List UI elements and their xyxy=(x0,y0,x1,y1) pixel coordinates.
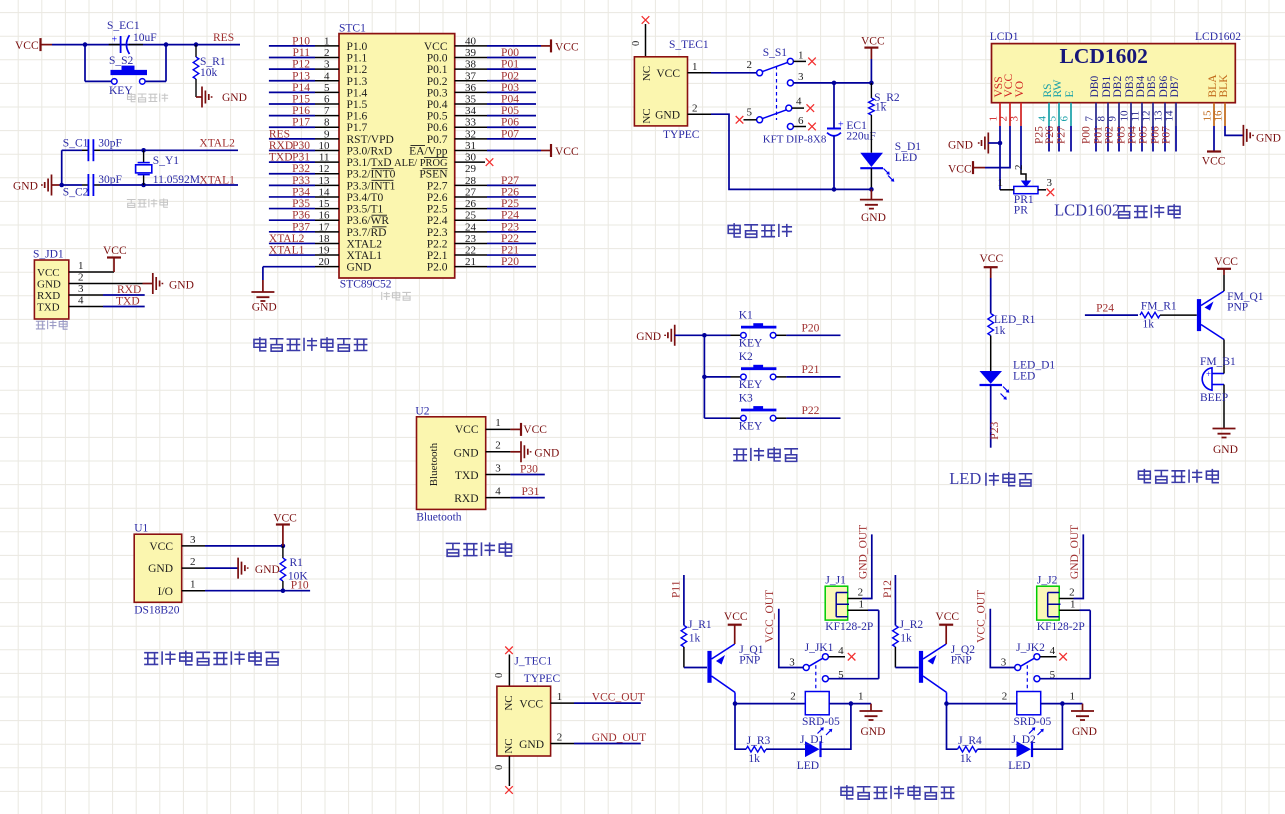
wire to LED branch xyxy=(947,704,958,750)
svg-text:KEY: KEY xyxy=(739,338,763,350)
svg-text:16: 16 xyxy=(319,210,331,222)
svg-text:2: 2 xyxy=(557,732,563,744)
title 单片机最小系统 xyxy=(254,337,367,351)
svg-text:1: 1 xyxy=(78,260,84,272)
connector S_JD1 xyxy=(33,249,69,320)
svg-text:LCD1: LCD1 xyxy=(990,31,1019,43)
svg-text:RST/VPD: RST/VPD xyxy=(347,134,394,146)
svg-text:LED: LED xyxy=(895,152,917,164)
svg-text:P0.3: P0.3 xyxy=(427,87,448,99)
pin 11 P3.1/TxD xyxy=(269,152,392,170)
svg-text:E: E xyxy=(1064,90,1076,97)
svg-text:VCC: VCC xyxy=(935,611,959,623)
svg-text:P25: P25 xyxy=(501,198,519,210)
svg-text:P3.7/RD: P3.7/RD xyxy=(347,227,387,239)
LED LED_D1 xyxy=(980,360,1056,400)
svg-text:1: 1 xyxy=(1070,690,1076,702)
LED S_D1 xyxy=(860,141,921,189)
svg-text:1: 1 xyxy=(998,177,1004,189)
relay SRD-05 xyxy=(1002,690,1075,735)
svg-text:VCC: VCC xyxy=(15,40,39,52)
svg-text:P02: P02 xyxy=(1104,126,1116,144)
svg-text:GND_OUT: GND_OUT xyxy=(592,732,646,744)
pin 2 VCC xyxy=(998,74,1016,122)
switch S_S2 KEY xyxy=(85,45,166,97)
svg-text:J_TEC1: J_TEC1 xyxy=(514,656,552,668)
svg-text:4: 4 xyxy=(796,96,802,108)
pin4 stub + X xyxy=(792,104,814,112)
svg-text:RXD: RXD xyxy=(117,284,141,296)
svg-text:P34: P34 xyxy=(292,186,310,198)
svg-text:10: 10 xyxy=(319,140,331,152)
svg-text:3: 3 xyxy=(1009,116,1021,122)
wire + net label P21 xyxy=(786,364,840,377)
svg-text:PNP: PNP xyxy=(739,655,760,667)
svg-text:VCC: VCC xyxy=(519,699,543,711)
pin 4 wire, net P31 xyxy=(486,485,545,498)
power port VCC (pin 31) xyxy=(541,144,579,158)
transistor J_Q1 PNP xyxy=(684,644,764,704)
annotation 按键复位 xyxy=(127,93,168,102)
resistor S_R1 10k xyxy=(193,45,226,97)
svg-text:K2: K2 xyxy=(739,351,753,363)
svg-text:GND: GND xyxy=(636,331,661,343)
svg-text:NC: NC xyxy=(503,738,515,753)
svg-text:P04: P04 xyxy=(501,94,519,106)
switch J_JK1 xyxy=(789,642,844,692)
svg-text:VCC_OUT: VCC_OUT xyxy=(592,692,645,704)
pin 3 wire xyxy=(182,534,286,548)
wire pin3 to VCC rail xyxy=(793,81,873,86)
power port VCC (power circuit) xyxy=(861,36,885,83)
title 防水温度采集模块 xyxy=(144,651,279,665)
svg-text:1: 1 xyxy=(495,417,501,429)
svg-text:DB7: DB7 xyxy=(1169,76,1181,98)
wire relay pin1 xyxy=(829,701,871,706)
pin 2 xyxy=(69,272,143,284)
pin 9 RST/VPD xyxy=(269,128,394,146)
pin 2 wire, net GND_OUT xyxy=(551,732,647,745)
svg-text:VCC: VCC xyxy=(455,424,479,436)
svg-text:P05: P05 xyxy=(501,105,519,117)
svg-text:1k: 1k xyxy=(748,753,760,765)
svg-text:P27: P27 xyxy=(501,175,519,187)
pin 1 xyxy=(486,417,511,429)
pin 40 VCC xyxy=(424,35,541,53)
pin3 VO wire to wiper xyxy=(1013,126,1031,187)
wire xyxy=(494,655,509,687)
svg-text:GND: GND xyxy=(148,563,173,575)
svg-text:2: 2 xyxy=(1013,165,1025,171)
svg-text:0: 0 xyxy=(494,673,505,678)
pin 17 P3.7/RD xyxy=(269,221,387,239)
svg-text:3: 3 xyxy=(495,462,501,474)
svg-text:TXD: TXD xyxy=(116,296,140,308)
pin 26 P2.5 xyxy=(427,198,536,216)
svg-text:P3.3/INT1: P3.3/INT1 xyxy=(347,180,396,192)
power port VCC (relay) xyxy=(935,611,959,644)
svg-text:P21: P21 xyxy=(802,364,820,376)
svg-text:P11: P11 xyxy=(293,47,311,59)
svg-text:15: 15 xyxy=(319,198,331,210)
svg-text:P2.6: P2.6 xyxy=(427,192,448,204)
net label P12 + wire xyxy=(882,575,895,625)
power port VCC (U1) xyxy=(273,513,297,546)
svg-text:1k: 1k xyxy=(875,102,887,114)
svg-text:FM_R1: FM_R1 xyxy=(1141,301,1177,313)
svg-text:STC89C52: STC89C52 xyxy=(340,279,392,291)
IC STC1 STC89C52 xyxy=(339,23,455,279)
svg-text:4: 4 xyxy=(495,485,501,497)
wire xyxy=(990,278,992,314)
svg-text:P2.4: P2.4 xyxy=(427,215,448,227)
pin 13 P3.3/INT1 xyxy=(269,175,396,193)
pin 11 DB4 xyxy=(1130,76,1148,122)
pin 3 wire, net RXD xyxy=(69,283,145,296)
resistor LED_R1 1k xyxy=(988,314,1036,372)
svg-text:J_R1: J_R1 xyxy=(688,619,712,631)
svg-text:GND: GND xyxy=(1256,133,1281,145)
svg-text:18: 18 xyxy=(319,233,331,245)
pin 2 wire xyxy=(688,103,872,190)
net label P11 + wire xyxy=(671,575,684,625)
pin 12 P3.2/INT0 xyxy=(269,163,396,181)
svg-text:+: + xyxy=(112,35,118,46)
svg-text:2: 2 xyxy=(1069,587,1075,599)
svg-text:PSEN: PSEN xyxy=(419,169,448,181)
svg-text:P13: P13 xyxy=(292,70,310,82)
pin 9 DB2 xyxy=(1107,76,1125,122)
svg-text:P14: P14 xyxy=(292,82,310,94)
svg-text:KF128-2P: KF128-2P xyxy=(825,621,873,633)
switch J_JK2 xyxy=(1001,642,1056,692)
svg-text:TYPEC: TYPEC xyxy=(663,129,700,141)
ground GND (reset) xyxy=(196,87,247,108)
ground GND (MCU) xyxy=(251,292,276,314)
no-ERC X (PR1 pin3) xyxy=(1047,189,1055,197)
pin 28 P2.7 xyxy=(427,175,536,193)
svg-text:VCC: VCC xyxy=(37,267,60,279)
KF pin1 wire xyxy=(1059,599,1090,611)
ground GND (buzzer) xyxy=(1213,429,1238,457)
svg-text:12: 12 xyxy=(319,163,330,175)
pin 37 P0.2 xyxy=(427,70,536,88)
svg-text:+: + xyxy=(838,120,844,131)
svg-text:+: + xyxy=(1206,369,1211,379)
wire + net label P23 xyxy=(989,385,1001,448)
svg-text:1: 1 xyxy=(692,61,698,73)
svg-text:S_TEC1: S_TEC1 xyxy=(669,39,709,51)
pin 4 wire, net TXD xyxy=(69,295,145,308)
svg-text:P23: P23 xyxy=(989,422,1001,440)
svg-text:14: 14 xyxy=(319,186,331,198)
wire bottom xyxy=(494,756,509,786)
svg-text:RES: RES xyxy=(269,128,290,140)
net label XTAL2 xyxy=(199,138,235,150)
svg-text:PNP: PNP xyxy=(1227,302,1248,314)
svg-text:P22: P22 xyxy=(501,233,519,245)
node junction + coil wire xyxy=(733,701,806,706)
svg-text:P24: P24 xyxy=(501,210,519,222)
svg-text:7: 7 xyxy=(1084,116,1096,122)
ground GND (LCD left) xyxy=(948,133,1000,154)
pin 31 EA/Vpp xyxy=(409,140,541,158)
pin 22 P2.1 xyxy=(427,245,536,263)
pin 21 P2.0 xyxy=(427,256,536,274)
pin name overlines xyxy=(372,145,448,226)
svg-text:LCD1602: LCD1602 xyxy=(1059,44,1147,68)
svg-text:GND: GND xyxy=(861,212,886,224)
svg-text:J_R3: J_R3 xyxy=(747,735,771,747)
designator STC89C52 xyxy=(340,279,392,291)
svg-text:P1.6: P1.6 xyxy=(347,111,368,123)
pin 4 P1.3 xyxy=(269,70,368,88)
svg-text:1: 1 xyxy=(557,691,563,703)
svg-text:P07: P07 xyxy=(1161,126,1173,144)
pin 24 P2.3 xyxy=(427,221,536,239)
LED J_D1 xyxy=(797,734,825,772)
svg-text:P20: P20 xyxy=(501,256,519,268)
ground GND (keys) xyxy=(636,325,730,346)
svg-text:BEEP: BEEP xyxy=(1200,392,1228,404)
svg-text:VCC: VCC xyxy=(273,513,297,525)
svg-text:7: 7 xyxy=(324,105,330,117)
KF pin2 wire, net GND_OUT xyxy=(1059,525,1083,599)
svg-text:P22: P22 xyxy=(802,405,820,417)
svg-text:4: 4 xyxy=(838,645,844,657)
wire to LED branch xyxy=(735,704,746,750)
IC LCD1 LCD1602 xyxy=(990,31,1242,103)
svg-text:3: 3 xyxy=(190,534,196,546)
svg-text:P00: P00 xyxy=(501,47,519,59)
svg-text:14: 14 xyxy=(1164,110,1176,122)
svg-text:SRD-05: SRD-05 xyxy=(1014,716,1052,728)
svg-text:KFT DIP-8X8: KFT DIP-8X8 xyxy=(763,133,827,145)
pin 6 E xyxy=(1059,90,1077,121)
svg-text:GND: GND xyxy=(1072,726,1097,738)
svg-text:GND: GND xyxy=(861,726,886,738)
svg-text:2: 2 xyxy=(858,587,864,599)
power port VCC (buzzer) xyxy=(1214,256,1238,275)
svg-text:4: 4 xyxy=(78,295,84,307)
svg-text:P07: P07 xyxy=(501,128,519,140)
power port VCC (LED) xyxy=(980,253,1004,278)
pin 1 wire xyxy=(688,61,757,73)
svg-text:P2.1: P2.1 xyxy=(427,250,448,262)
transistor FM_Q1 PNP xyxy=(1199,291,1264,340)
switch S_S1 KFT DIP-8X8 xyxy=(747,47,827,145)
ground GND (U2) xyxy=(510,441,559,462)
pin 1 xyxy=(69,260,114,272)
svg-text:VO: VO xyxy=(1014,81,1026,98)
pin 29 PSEN xyxy=(419,163,476,181)
pin 14 P3.4/T0 xyxy=(269,186,384,204)
svg-text:P1.7: P1.7 xyxy=(347,122,368,134)
svg-text:P0.7: P0.7 xyxy=(427,134,448,146)
svg-text:P0.0: P0.0 xyxy=(427,53,448,65)
pin 10 P3.0/RxD xyxy=(269,140,392,158)
LED J_D2 xyxy=(1008,734,1036,772)
svg-text:GND: GND xyxy=(13,181,38,193)
pin5 stub + X xyxy=(736,116,757,124)
title 电源电路 xyxy=(728,223,792,237)
svg-text:P35: P35 xyxy=(292,198,310,210)
pin 32 P0.7 xyxy=(427,128,536,146)
svg-text:P3.6/WR: P3.6/WR xyxy=(347,215,390,227)
svg-text:VCC: VCC xyxy=(980,253,1004,265)
svg-text:GND: GND xyxy=(1213,444,1238,456)
connector J_TEC1 TYPEC xyxy=(497,656,561,757)
wire + net label P22 xyxy=(786,405,840,418)
annotation 下载口 xyxy=(36,320,68,329)
wire + net label P20 xyxy=(786,322,840,335)
svg-text:P3.4/T0: P3.4/T0 xyxy=(347,192,384,204)
resistor J_R2 1k xyxy=(893,619,924,668)
pin2 VCC wire xyxy=(985,126,1010,168)
svg-text:1: 1 xyxy=(858,690,864,702)
pin 14 DB7 xyxy=(1164,76,1182,122)
svg-text:VCC_OUT: VCC_OUT xyxy=(976,590,988,643)
pin 3 VO xyxy=(1009,81,1027,122)
module U2 Bluetooth xyxy=(415,405,485,523)
pin6 stub + X xyxy=(793,123,815,131)
svg-text:J_J1: J_J1 xyxy=(825,575,846,587)
ground GND (relay) xyxy=(860,704,886,738)
svg-text:VCC: VCC xyxy=(555,41,579,53)
svg-text:LED: LED xyxy=(949,469,981,488)
pin 12 DB5 xyxy=(1141,76,1159,122)
svg-text:2: 2 xyxy=(495,440,501,452)
svg-text:ALE/ PROG: ALE/ PROG xyxy=(394,158,448,169)
svg-text:0: 0 xyxy=(631,41,642,46)
svg-text:5: 5 xyxy=(324,82,330,94)
svg-text:DB2: DB2 xyxy=(1112,76,1124,98)
pin 8 DB1 xyxy=(1096,76,1114,122)
svg-text:Bluetooth: Bluetooth xyxy=(428,442,440,486)
buzzer FM_B1 BEEP xyxy=(1200,356,1236,429)
svg-text:6: 6 xyxy=(798,115,804,127)
net VCC_OUT wire xyxy=(976,590,1015,668)
svg-text:30pF: 30pF xyxy=(98,138,122,150)
pin 34 P0.5 xyxy=(427,105,536,123)
pin stubs (colored) xyxy=(1000,103,1225,126)
KF pin1 wire xyxy=(848,599,879,611)
power port VCC (U2) xyxy=(510,423,547,436)
svg-text:2: 2 xyxy=(692,103,698,115)
power port VCC (relay) xyxy=(724,611,748,644)
svg-text:1: 1 xyxy=(859,599,865,611)
key switch K1 xyxy=(731,310,787,350)
svg-text:DS18B20: DS18B20 xyxy=(134,605,180,617)
pin 27 P2.6 xyxy=(427,186,536,204)
svg-text:P1.0: P1.0 xyxy=(347,41,368,53)
title 蜂鸣器电路 xyxy=(1138,469,1219,483)
wire pin5 to KF pin1 xyxy=(829,610,879,679)
svg-text:10k: 10k xyxy=(200,67,218,79)
module U1 DS18B20 xyxy=(134,523,182,617)
svg-text:3: 3 xyxy=(798,71,804,83)
svg-text:2: 2 xyxy=(1002,690,1008,702)
pin 18 XTAL2 xyxy=(269,233,382,251)
svg-text:RES: RES xyxy=(213,32,234,44)
svg-text:P2.0: P2.0 xyxy=(427,262,448,274)
pin 16 P3.6/WR xyxy=(269,210,389,228)
svg-text:S_S1: S_S1 xyxy=(763,47,788,59)
resistor R1 10K xyxy=(280,546,308,591)
pin 3 wire, net P30 xyxy=(486,462,545,475)
svg-text:P33: P33 xyxy=(292,175,310,187)
svg-text:R1: R1 xyxy=(290,557,304,569)
svg-text:13: 13 xyxy=(319,175,331,187)
svg-text:3: 3 xyxy=(324,59,330,71)
pin 2 wire xyxy=(182,556,238,568)
connector J_J2 KF128-2P xyxy=(1037,575,1085,634)
svg-text:GND_OUT: GND_OUT xyxy=(1069,525,1081,579)
wire GND pin 20 xyxy=(262,267,264,292)
svg-text:P1.4: P1.4 xyxy=(347,87,368,99)
svg-text:1: 1 xyxy=(324,35,330,47)
svg-text:9: 9 xyxy=(1107,116,1119,122)
ground GND (U1) xyxy=(238,558,280,579)
svg-text:U1: U1 xyxy=(134,523,148,535)
svg-text:VCC: VCC xyxy=(523,424,547,436)
svg-text:GND: GND xyxy=(169,280,194,292)
svg-text:P10: P10 xyxy=(292,35,310,47)
pin 2 P1.1 xyxy=(269,47,368,65)
svg-text:NC: NC xyxy=(641,108,653,123)
title 按键电路 xyxy=(733,447,798,461)
net label XTAL1 xyxy=(199,175,235,187)
pin 33 P0.6 xyxy=(427,117,536,135)
svg-text:P26: P26 xyxy=(1044,126,1056,144)
no-ERC X (J_TEC1 top) xyxy=(505,647,513,655)
svg-text:GND: GND xyxy=(519,739,544,751)
capacitor S_EC1 10uF xyxy=(107,20,157,54)
svg-text:XTAL1: XTAL1 xyxy=(269,245,305,257)
pin 5 P1.4 xyxy=(269,82,368,100)
power port VCC (LCD left) xyxy=(948,161,985,175)
node junction + coil wire xyxy=(944,701,1017,706)
pin 2 xyxy=(486,440,511,452)
svg-text:6: 6 xyxy=(1059,116,1071,122)
relay SRD-05 xyxy=(790,690,863,735)
ground GND (relay) xyxy=(1071,704,1097,738)
svg-text:VCC: VCC xyxy=(948,164,972,176)
pin4 stub + X xyxy=(829,653,856,661)
svg-text:11.0592M: 11.0592M xyxy=(153,174,200,186)
svg-text:TXD: TXD xyxy=(37,302,60,314)
pin 1 P1.0 xyxy=(269,35,368,53)
annotation 晶振电路 xyxy=(127,198,168,207)
svg-text:LED: LED xyxy=(797,760,819,772)
pin 7 P1.6 xyxy=(269,105,368,123)
net label P24 + wire xyxy=(1085,303,1138,316)
svg-text:P06: P06 xyxy=(501,117,519,129)
svg-text:VCC: VCC xyxy=(1214,256,1238,268)
svg-text:6: 6 xyxy=(324,94,330,106)
pin 3 P1.2 xyxy=(269,59,368,77)
svg-text:3: 3 xyxy=(1047,177,1053,189)
no-ERC X (J_TEC1 bottom) xyxy=(505,786,513,794)
svg-text:J_D2: J_D2 xyxy=(1012,734,1037,746)
svg-text:J_R4: J_R4 xyxy=(958,735,982,747)
title 蓝牙模块 xyxy=(446,542,512,557)
svg-text:S_C1: S_C1 xyxy=(63,138,89,150)
net labels P25 P26 P27 xyxy=(1034,126,1068,144)
svg-text:0: 0 xyxy=(494,765,505,770)
svg-text:VCC: VCC xyxy=(555,146,579,158)
svg-text:4: 4 xyxy=(1050,645,1056,657)
